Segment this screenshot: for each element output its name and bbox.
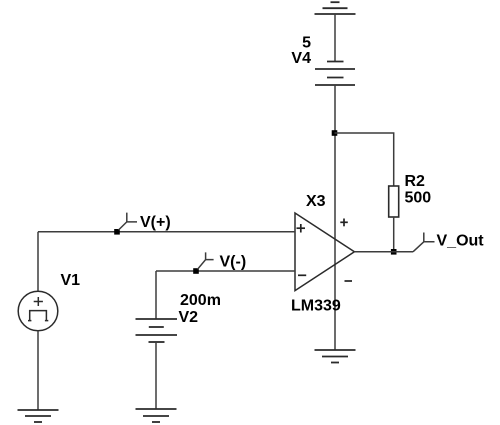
node V_Out label marker (413, 233, 435, 252)
ground (V2) (136, 409, 177, 422)
svg-text:V_Out: V_Out (437, 232, 485, 249)
wire top ground to V4 (334, 14, 336, 62)
svg-text:X3: X3 (306, 193, 326, 210)
resistor R2 (389, 186, 399, 217)
svg-text:200m: 200m (180, 292, 221, 309)
op-amp X3 positive supply pin mark + (340, 219, 348, 227)
battery V2 (136, 319, 178, 342)
svg-text:V4: V4 (291, 50, 311, 67)
svg-text:V(+): V(+) (140, 214, 171, 231)
ground top (above V4) (315, 2, 356, 14)
op-amp X3 negative supply pin mark - (345, 280, 353, 282)
node V(+) (114, 229, 120, 235)
svg-text:V1: V1 (61, 272, 81, 289)
wire junction to R2 top (335, 133, 394, 186)
svg-text:LM339: LM339 (291, 298, 341, 315)
node V(-) label marker (198, 252, 214, 269)
wire V(-) net horizontal (156, 270, 295, 272)
svg-text:R2: R2 (405, 173, 426, 190)
node V_Out junction (391, 249, 397, 255)
wire V1 to ground (37, 331, 39, 410)
svg-text:V(-): V(-) (220, 254, 247, 271)
ground (V1) (18, 410, 59, 422)
wire V(+) down to V1 (37, 232, 39, 292)
battery V4 (315, 62, 355, 86)
node V(-) (193, 268, 199, 274)
wire power rail V4 to op-amp ground (334, 85, 336, 350)
wire V(-) down to V2 (155, 271, 157, 319)
node junction power rail / R2 branch (332, 130, 338, 136)
svg-text:V2: V2 (179, 309, 199, 326)
ground (op-amp negative supply) (315, 350, 356, 363)
wire R2 bottom to output node (393, 217, 395, 252)
svg-text:500: 500 (405, 189, 432, 206)
op-amp U1 X3 triangle (295, 213, 354, 291)
wire V2 to ground (155, 342, 157, 409)
source V1 (pulse voltage source) (18, 291, 58, 331)
wire op-amp output to V_Out (354, 251, 413, 253)
svg-text:5: 5 (302, 34, 311, 51)
wire V(+) net horizontal (38, 231, 295, 233)
node V(+) label marker (119, 213, 138, 230)
op-amp X3 inverting input mark - (298, 274, 306, 276)
op-amp X3 non-inverting input mark + (297, 224, 306, 233)
